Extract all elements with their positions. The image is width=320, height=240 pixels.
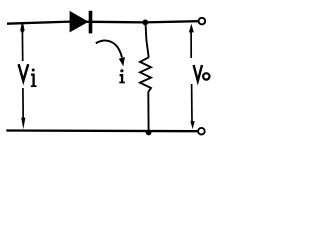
terminal top-right (open circle) [199, 18, 206, 25]
Vo arrow up head [189, 24, 194, 33]
current arrow (curved) [96, 41, 122, 58]
node B (bottom junction dot) [146, 130, 152, 136]
terminal bottom-right (open circle) [198, 128, 205, 135]
resistor R [140, 57, 151, 92]
label Vo [194, 65, 210, 81]
wire Vi lower segment [22, 88, 24, 119]
label Vi [19, 64, 37, 86]
Vo arrow down head [190, 121, 194, 129]
wire Vo upper segment [190, 30, 192, 58]
wire top rail [7, 21, 198, 24]
Vi arrow up head [20, 24, 24, 34]
wire Vo lower segment [191, 84, 193, 122]
node A (top junction dot) [142, 20, 148, 26]
diode D1 [70, 11, 93, 34]
wire resistor bottom lead [147, 92, 149, 132]
wire Vi upper segment [21, 31, 23, 61]
wire resistor top lead [146, 23, 149, 58]
Vi arrow down head [21, 118, 25, 130]
wire bottom rail [6, 129, 197, 132]
label i (current) [119, 69, 125, 82]
